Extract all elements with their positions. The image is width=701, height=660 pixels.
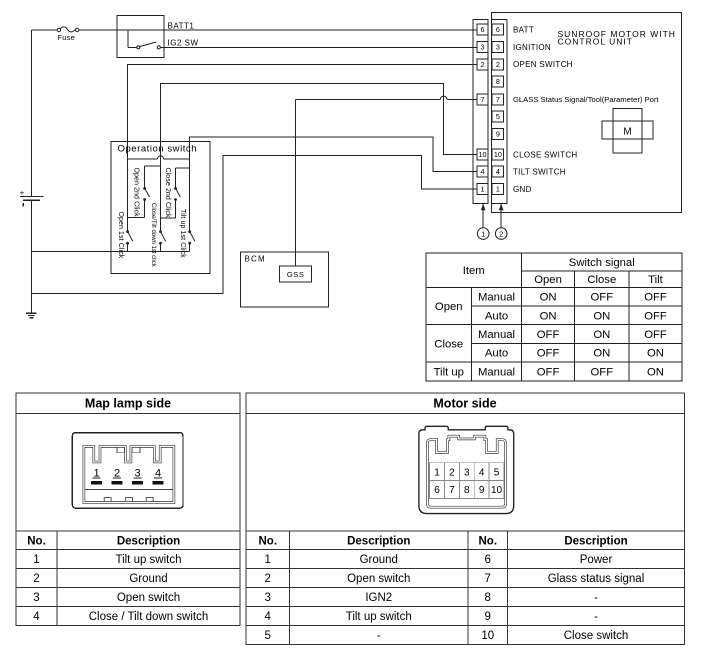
panel Map lamp side [16,393,240,626]
wire IG2 SW to pin 3 (IGNITION) [160,46,476,48]
wire fuse to BATT1 box and pin 6 (BATT) [79,29,477,31]
svg-text:OFF: OFF [591,366,614,378]
svg-text:Operation switch: Operation switch [118,144,198,155]
BCM box [241,252,329,307]
svg-text:ON: ON [593,329,610,341]
wire ground bus of operation switch [32,251,190,253]
svg-text:5: 5 [494,467,500,478]
connector column left (map lamp side) [473,20,488,204]
pin 1 right column [492,184,503,195]
pin 10 left column [477,149,488,160]
motor M1 [602,109,653,154]
svg-text:Close: Close [587,274,616,286]
svg-text:2: 2 [265,573,271,585]
svg-text:7: 7 [481,95,485,104]
svg-text:10: 10 [481,630,494,642]
switch Close/Tilt down 1st click [150,203,166,268]
svg-text:Open 1st Click: Open 1st Click [117,212,124,259]
svg-text:3: 3 [481,43,485,52]
svg-text:OFF: OFF [644,310,667,322]
svg-text:Description: Description [347,535,410,547]
svg-text:Close/Tilt down 1st click: Close/Tilt down 1st click [150,203,156,268]
svg-text:GLASS Status Signal/Tool(Param: GLASS Status Signal/Tool(Parameter) Port [513,95,659,104]
svg-text:-: - [377,630,381,642]
svg-text:Ground: Ground [360,554,398,566]
svg-text:1: 1 [496,185,500,194]
wire CLOSE switch: pin 10 to operation switch middle branch [161,83,477,231]
svg-text:GSS: GSS [287,270,305,279]
svg-text:Item: Item [463,265,485,277]
svg-text:1: 1 [481,185,485,194]
panel Motor side [246,393,685,645]
wire battery feed from fuse [32,29,58,31]
svg-text:Manual: Manual [478,366,515,378]
svg-text:9: 9 [496,130,500,139]
svg-text:4: 4 [265,611,272,623]
svg-text:IG2 SW: IG2 SW [168,39,199,48]
svg-text:Tilt up: Tilt up [434,366,464,378]
switch Tilt up 1st click [179,209,195,258]
svg-text:2: 2 [481,60,485,69]
svg-text:BATT: BATT [513,25,534,34]
svg-text:2: 2 [114,467,120,479]
pin 5 right column [492,111,503,122]
pin 2 left column [477,59,488,70]
table map lamp side [16,531,240,626]
svg-text:8: 8 [496,77,500,86]
svg-text:4: 4 [496,167,500,176]
svg-text:5: 5 [496,112,500,121]
svg-text:Auto: Auto [485,310,508,322]
wire internal bus with hop at middle branch [128,158,158,160]
svg-text:1: 1 [33,554,39,566]
pin 8 right column [492,76,503,87]
svg-text:2: 2 [33,573,39,585]
svg-text:3: 3 [265,592,271,604]
svg-text:8: 8 [464,485,470,496]
svg-text:ON: ON [647,348,664,360]
svg-text:1: 1 [481,229,485,238]
svg-text:Description: Description [564,535,627,547]
pin 1 left column [477,184,488,195]
svg-text:3: 3 [33,592,39,604]
svg-text:OFF: OFF [644,292,667,304]
svg-text:No.: No. [27,535,46,547]
wire OPEN switch: pin 2 to operation switch left branch [128,64,477,231]
wire left vertical battery rail [31,30,33,196]
svg-text:Ground: Ground [129,573,167,585]
svg-text:6: 6 [496,25,500,34]
svg-text:5: 5 [265,630,271,642]
fuse F1 [57,27,79,42]
svg-text:7: 7 [449,485,455,496]
svg-text:OPEN SWITCH: OPEN SWITCH [513,60,573,69]
svg-text:M: M [623,126,631,137]
ground symbol [26,313,36,319]
svg-text:Description: Description [117,535,180,547]
svg-text:4: 4 [481,167,485,176]
pin 3 left column [477,42,488,53]
relay box BATT1 with IG2 switch [117,16,164,58]
svg-text:Open: Open [534,274,562,286]
control unit box SUNROOF MOTOR WITH CONTROL UNIT [492,13,682,213]
svg-text:Auto: Auto [485,348,508,360]
pin 7 left column [477,94,488,105]
svg-text:ON: ON [593,348,610,360]
svg-text:6: 6 [481,25,485,34]
connector column right (motor side) [492,20,507,204]
svg-text:Manual: Manual [478,292,515,304]
svg-text:TILT SWITCH: TILT SWITCH [513,167,566,176]
pin 4 left column [477,166,488,177]
svg-text:1: 1 [93,467,99,479]
svg-text:ON: ON [540,310,557,322]
operation switch box [111,142,210,274]
svg-text:CLOSE SWITCH: CLOSE SWITCH [513,150,578,159]
svg-text:Switch signal: Switch signal [569,257,635,269]
pin 10 right column [492,149,503,160]
svg-text:GND: GND [513,185,532,194]
connector reference 1 with arrow [477,204,489,240]
svg-text:Motor side: Motor side [433,397,496,411]
svg-text:3: 3 [464,467,470,478]
svg-text:Tilt up 1st Click: Tilt up 1st Click [179,209,186,258]
svg-text:8: 8 [485,592,491,604]
svg-text:-: - [594,611,598,623]
svg-text:Glass status signal: Glass status signal [548,573,645,585]
svg-text:Tilt up switch: Tilt up switch [115,554,181,566]
svg-text:2: 2 [499,229,503,238]
switch Close 2nd click [161,168,190,219]
svg-text:ON: ON [593,310,610,322]
svg-text:10: 10 [479,150,487,159]
svg-text:1: 1 [434,467,440,478]
svg-text:4: 4 [479,467,485,478]
svg-text:No.: No. [258,535,277,547]
svg-text:4: 4 [155,467,161,479]
svg-text:Tilt: Tilt [648,274,664,286]
svg-text:Close 2nd Click: Close 2nd Click [164,168,171,219]
pin 6 right column [492,24,503,35]
svg-text:Close / Tilt down switch: Close / Tilt down switch [89,611,209,623]
svg-text:OFF: OFF [537,348,560,360]
svg-text:3: 3 [134,467,140,479]
svg-text:3: 3 [496,43,500,52]
svg-text:OFF: OFF [591,292,614,304]
switch Open 2nd click [128,166,161,217]
svg-text:2: 2 [496,60,500,69]
svg-text:Power: Power [580,554,613,566]
pin 9 right column [492,129,503,140]
table switch signal [426,253,682,381]
svg-text:9: 9 [479,485,485,496]
svg-text:2: 2 [449,467,455,478]
pin 6 left column [477,24,488,35]
svg-text:Fuse: Fuse [58,33,75,42]
svg-text:Open: Open [435,301,463,313]
svg-text:6: 6 [434,485,440,496]
svg-text:10: 10 [494,150,502,159]
svg-text:Map lamp side: Map lamp side [85,397,171,411]
svg-text:OFF: OFF [537,329,560,341]
pin 4 right column [492,166,503,177]
svg-text:Open 2nd Click: Open 2nd Click [132,168,139,218]
svg-text:IGNITION: IGNITION [513,43,551,52]
connector drawing map lamp side [72,433,183,509]
svg-text:Tilt up switch: Tilt up switch [346,611,412,623]
connector reference 2 with arrow [495,204,507,240]
svg-text:ON: ON [540,292,557,304]
svg-text:9: 9 [485,611,491,623]
pin 2 right column [492,59,503,70]
svg-text:1: 1 [265,554,271,566]
svg-text:OFF: OFF [644,329,667,341]
svg-text:Close switch: Close switch [564,630,629,642]
svg-text:Close: Close [434,338,463,350]
pin 3 right column [492,42,503,53]
svg-text:No.: No. [478,535,497,547]
svg-text:7: 7 [496,95,500,104]
svg-text:BCM: BCM [245,255,266,264]
svg-text:7: 7 [485,573,491,585]
svg-text:6: 6 [485,554,491,566]
svg-text:Manual: Manual [478,329,515,341]
table motor side [246,531,685,645]
svg-text:BATT1: BATT1 [168,22,195,31]
connector drawing motor side [419,426,514,513]
battery B1 [20,188,44,206]
svg-text:4: 4 [33,611,40,623]
switch Open 1st click [117,212,133,259]
wire GND: pin 1 to battery negative rail [32,155,477,293]
wire GLASS status signal: pin 7 to GSS in BCM with hop over close wire [447,98,477,100]
svg-text:CONTROL UNIT: CONTROL UNIT [558,36,633,46]
pin 7 right column [492,94,503,105]
GSS module box [280,266,312,282]
wire TILT switch: pin 4 to operation switch right branch [190,137,477,231]
svg-text:-: - [594,592,598,604]
svg-text:OFF: OFF [537,366,560,378]
svg-text:10: 10 [491,485,503,496]
svg-text:Open switch: Open switch [347,573,410,585]
svg-text:+: + [20,188,25,197]
svg-text:Open switch: Open switch [117,592,180,604]
svg-text:ON: ON [647,366,664,378]
svg-text:IGN2: IGN2 [365,592,392,604]
